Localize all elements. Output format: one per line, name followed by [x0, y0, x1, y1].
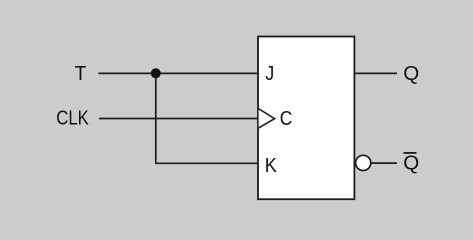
JK flip-flop body U1 [258, 37, 354, 200]
wire vertical branch from T junction [155, 73, 157, 163]
svg-text:Q: Q [403, 63, 419, 85]
svg-text:J: J [265, 63, 274, 85]
wire Q-bar output [371, 162, 397, 164]
svg-text:T: T [75, 63, 87, 85]
inversion bubble on Q-bar [356, 155, 371, 170]
wire branch to K input [155, 162, 258, 164]
wire CLK input to C [99, 118, 258, 120]
overbar of Q-bar [404, 152, 417, 154]
clock edge triangle at C [259, 109, 275, 128]
svg-text:CLK: CLK [56, 108, 89, 130]
wire T input to J [98, 72, 258, 74]
svg-text:C: C [280, 108, 293, 130]
svg-text:K: K [265, 155, 278, 177]
node junction dot [151, 68, 161, 78]
svg-text:Q: Q [403, 152, 419, 174]
wire Q output [354, 72, 397, 74]
